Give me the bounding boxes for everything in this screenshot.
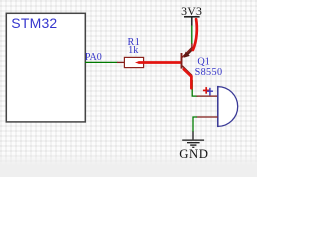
- svg-text:PA0: PA0: [85, 52, 102, 63]
- transistor Q1 emitter pin: [182, 44, 192, 58]
- wire 3V3 to Q1 emitter (green): [191, 26, 193, 45]
- power port 3V3 bar: [184, 16, 200, 18]
- resistor R1 body: [124, 57, 143, 67]
- wire buzzer to GND (green): [193, 117, 197, 132]
- wire R1 to Q1 base (green under highlight): [155, 61, 181, 63]
- ground GND stem: [192, 132, 194, 140]
- svg-text:STM32: STM32: [11, 15, 57, 31]
- buzzer LS1 top (+) pin: [197, 95, 218, 97]
- resistor R1 right lead: [144, 61, 158, 63]
- red highlight: 3V3 down to emitter: [193, 19, 197, 50]
- svg-text:S8550: S8550: [195, 67, 223, 78]
- power port 3V3 stem: [191, 17, 193, 26]
- wire collector to buzzer + pin (green): [192, 80, 197, 96]
- buzzer LS1 bottom pin: [197, 116, 218, 118]
- transistor Q1 base bar: [181, 53, 183, 69]
- svg-text:GND: GND: [179, 147, 208, 161]
- ground bar 1: [182, 139, 204, 141]
- ground bar 4: [192, 146, 194, 148]
- buzzer plus designator (blue): [207, 88, 213, 96]
- svg-text:3V3: 3V3: [181, 4, 202, 18]
- buzzer LS1 flat side: [217, 86, 219, 127]
- red highlight: collector down to buzzer: [184, 69, 192, 88]
- transistor Q1 collector pin: [182, 66, 191, 81]
- emitter arrow head (PNP, dark): [184, 52, 190, 58]
- wire PA0 to R1 (green): [85, 61, 118, 63]
- ground bar 3: [190, 144, 196, 146]
- emitter arrow shaft (PNP, dark): [188, 48, 194, 54]
- ground bar 2: [187, 142, 200, 144]
- resistor R1 left lead: [117, 61, 125, 63]
- red highlight: base wire: [135, 61, 139, 64]
- buzzer LS1 body: [218, 87, 238, 127]
- MCU box STM32: [6, 13, 85, 122]
- svg-text:1k: 1k: [128, 45, 139, 56]
- svg-text:Q1: Q1: [197, 56, 209, 67]
- red highlight plus mark: [203, 87, 210, 94]
